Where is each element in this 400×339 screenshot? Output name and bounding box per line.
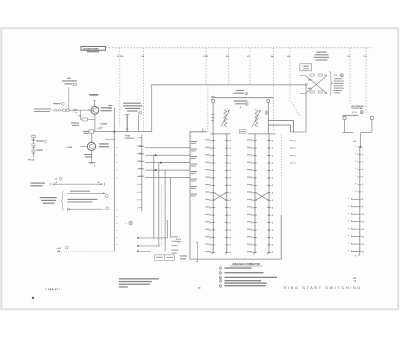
connector P1 pin name labels [191, 141, 197, 196]
svg-text:4: 4 [355, 254, 356, 257]
svg-text:a: a [348, 228, 349, 230]
svg-text:4: 4 [272, 229, 273, 232]
wires from bus to P1 [138, 146, 190, 178]
stub wires right of P2 [290, 140, 296, 164]
svg-text:a: a [116, 155, 117, 157]
Q2 labels [99, 143, 109, 147]
Q2 emitter down with cap [84, 151, 95, 168]
footnote block [119, 278, 159, 287]
tiny dot mark [32, 297, 34, 299]
chassis part label box [81, 46, 105, 50]
wire dashed dropper 4 CR [203, 48, 208, 85]
svg-text:4: 4 [230, 229, 231, 232]
dimension arrow line [51, 181, 105, 186]
Q1 emitter wire down [94, 114, 96, 131]
svg-text:TP-4.2: TP-4.2 [28, 158, 35, 161]
svg-text:a: a [137, 153, 138, 155]
svg-text:4: 4 [230, 206, 231, 209]
svg-text:a: a [137, 184, 138, 186]
svg-text:4: 4 [272, 192, 273, 195]
svg-text:a: a [137, 200, 138, 202]
svg-text:a: a [116, 216, 117, 218]
svg-text:a: a [116, 177, 117, 179]
svg-text:4: 4 [272, 244, 273, 247]
connector J4 bottom hook [355, 254, 360, 258]
dashed feed line [57, 250, 115, 252]
svg-text:+4: +4 [55, 181, 57, 184]
P2-A pin id labels [247, 139, 252, 252]
svg-text:9: 9 [362, 207, 363, 209]
wire dashed dropper C2 [347, 48, 350, 105]
P2-B pin ticks [267, 139, 273, 254]
svg-text:4: 4 [230, 221, 231, 224]
svg-text:2 PART: 2 PART [302, 65, 309, 68]
svg-text:4: 4 [230, 169, 231, 172]
svg-text:1: 1 [362, 147, 363, 149]
svg-text:4 4: 4 4 [354, 280, 357, 283]
svg-text:7: 7 [362, 192, 363, 194]
wire dashed dropper T-8 [363, 48, 367, 115]
svg-text:13: 13 [362, 236, 364, 238]
telset label [31, 183, 46, 187]
right sub-circuit wires [342, 115, 373, 147]
bracket right [196, 242, 198, 262]
svg-text:a: a [137, 137, 138, 139]
svg-text:a: a [116, 237, 117, 239]
svg-text:4: 4 [230, 139, 231, 142]
svg-text:5: 5 [295, 148, 296, 150]
svg-text:a: a [355, 183, 356, 185]
stub wires bottom [137, 237, 167, 252]
transistor Q1 [88, 106, 99, 114]
svg-text:a: a [137, 176, 138, 178]
svg-text:a: a [355, 146, 356, 148]
wire dashed dropper 4T [247, 48, 250, 85]
svg-text:a: a [348, 205, 349, 207]
svg-text:4: 4 [94, 164, 95, 167]
resistor R2 box [79, 115, 95, 121]
svg-text:8: 8 [362, 199, 363, 201]
Q2 base wire with arrow label [65, 146, 88, 149]
text row 2 [67, 199, 97, 203]
svg-text:5: 5 [295, 163, 296, 165]
svg-text:4: 4 [272, 147, 273, 150]
connector J4 pin ticks [348, 146, 364, 254]
wire dashed dropper 4A [271, 48, 274, 132]
collector rail wire [91, 131, 152, 133]
svg-text:7-4BB 4P1: 7-4BB 4P1 [45, 288, 61, 291]
varistor string [53, 108, 91, 120]
svg-text:a: a [348, 213, 349, 215]
test point chain [32, 134, 36, 157]
switch lever dashed [287, 48, 300, 116]
Q1 collector stub [89, 94, 98, 106]
svg-text:4: 4 [355, 140, 356, 143]
svg-text:4: 4 [230, 214, 231, 217]
svg-text:⋯4 B: ⋯4 B [56, 247, 61, 250]
svg-text:3: 3 [362, 162, 363, 164]
svg-text:4: 4 [272, 184, 273, 187]
svg-text:4: 4 [272, 139, 273, 142]
sheet title [284, 286, 362, 290]
label R-102 [53, 102, 64, 105]
svg-text:C4: C4 [324, 92, 326, 95]
svg-text:a: a [116, 244, 117, 246]
shield wire A [125, 114, 130, 132]
svg-text:6: 6 [362, 184, 363, 186]
connector column P1-A [211, 134, 213, 254]
svg-text:4: 4 [272, 214, 273, 217]
wire pair to right block [268, 121, 293, 132]
svg-text:a: a [137, 145, 138, 147]
svg-text:a: a [116, 223, 117, 225]
svg-text:4: 4 [272, 251, 273, 254]
connector column P2-B [267, 134, 269, 254]
label 2.5 [100, 123, 107, 124]
wire dashed dropper 47 CM [117, 48, 123, 127]
thermistor note [125, 221, 133, 225]
note 2-part locator board [314, 52, 329, 61]
svg-text:CONTROL: CONTROL [125, 138, 136, 140]
connector J4 vertical [359, 147, 361, 254]
svg-text:4: 4 [362, 168, 363, 171]
tiny mark [198, 287, 200, 288]
bus verticals [154, 155, 171, 251]
svg-text:12: 12 [362, 229, 364, 231]
svg-text:a: a [355, 190, 356, 192]
svg-text:4: 4 [272, 154, 273, 157]
note 2.2 [55, 177, 62, 180]
svg-text:2: 2 [220, 273, 221, 275]
svg-text:a: a [137, 168, 138, 170]
svg-text:a: a [116, 162, 117, 164]
svg-text:a: a [348, 250, 349, 252]
svg-text:R4: R4 [75, 108, 77, 111]
trademark box [155, 255, 175, 260]
svg-text:15: 15 [362, 251, 364, 253]
svg-text:4: 4 [88, 109, 89, 112]
connector column P1-B [225, 134, 227, 254]
svg-text:a: a [355, 175, 356, 177]
svg-text:4: 4 [272, 206, 273, 209]
note with circle [56, 246, 68, 250]
svg-text:a: a [348, 198, 349, 200]
slanted annotation [96, 126, 103, 131]
label tone control [125, 136, 136, 141]
legend title [230, 263, 263, 266]
svg-text:5: 5 [295, 155, 296, 157]
page reference [45, 288, 61, 291]
wire stub from note [68, 87, 70, 110]
brace [329, 72, 332, 96]
svg-text:a: a [137, 207, 138, 209]
svg-text:a: a [137, 192, 138, 194]
dashed return wire [280, 135, 282, 214]
svg-text:4: 4 [230, 177, 231, 180]
svg-text:10: 10 [362, 214, 364, 216]
note ringer equivalency [123, 103, 142, 115]
legend notes [219, 267, 277, 288]
svg-text:4: 4 [230, 162, 231, 165]
arrow row 1 [67, 191, 108, 198]
P2-A pin ticks [251, 139, 257, 254]
svg-text:a: a [355, 153, 356, 155]
svg-text:a: a [348, 243, 349, 245]
svg-text:AVAILABLE CONNECTOR: AVAILABLE CONNECTOR [232, 263, 260, 266]
crossed wires with resistors [300, 74, 327, 95]
network block outline [152, 85, 306, 132]
switch contact S2 [267, 99, 270, 133]
bottom rail segments [211, 130, 276, 134]
Q1 labels [101, 107, 112, 111]
svg-text:4: 4 [272, 221, 273, 224]
switch common wire [211, 90, 274, 98]
svg-text:4(A): 4(A) [308, 87, 312, 90]
svg-text:a: a [116, 147, 117, 149]
label center [176, 238, 181, 244]
P1-A pin ticks [210, 139, 216, 254]
wire dashed dropper 1 B [141, 48, 145, 132]
svg-text:1: 1 [220, 268, 221, 270]
part locator box [300, 64, 312, 71]
svg-text:4: 4 [230, 199, 231, 202]
tick bus wire [137, 134, 141, 211]
svg-text:6: 6 [220, 286, 221, 288]
crossover wires P1 [213, 192, 227, 200]
svg-text:R-4: R-4 [79, 115, 82, 118]
svg-text:11: 11 [362, 222, 364, 224]
shield wire B [139, 115, 141, 132]
coil L2 with arrow [252, 110, 261, 128]
svg-text:a: a [116, 210, 117, 212]
typical setup note [40, 197, 57, 204]
aux ringer computer label [351, 105, 364, 114]
svg-text:2.2: 2.2 [55, 179, 58, 181]
labels right of box [180, 255, 187, 259]
junction dots on wires [155, 154, 162, 171]
transistor Q2 [87, 133, 95, 150]
dashed chassis boundary wire [106, 47, 373, 49]
brace left [61, 191, 64, 210]
svg-text:4: 4 [240, 106, 241, 109]
svg-text:a: a [116, 170, 117, 172]
inner dashed divider [208, 85, 215, 132]
note cluster top left [62, 78, 77, 86]
connector strip P1 outline [190, 128, 281, 259]
svg-text:14: 14 [362, 243, 364, 246]
svg-text:2: 2 [362, 154, 363, 156]
svg-text:a: a [355, 168, 356, 170]
svg-text:4: 4 [230, 244, 231, 247]
chassis sub-label [87, 51, 99, 53]
wire dashed dropper 4R [226, 48, 229, 85]
svg-text:a: a [348, 235, 349, 237]
block inner label [234, 100, 248, 109]
svg-text:4(B): 4(B) [308, 79, 312, 82]
junction dot [360, 146, 362, 148]
svg-text:LOCB: LOCB [303, 69, 309, 71]
svg-text:a: a [348, 220, 349, 222]
switch contact S1 [212, 99, 215, 133]
svg-text:5: 5 [362, 177, 363, 179]
svg-text:+4: +4 [97, 181, 99, 184]
svg-text:COMPUTER: COMPUTER [351, 108, 363, 110]
svg-text:4: 4 [230, 251, 231, 254]
svg-text:5: 5 [295, 140, 296, 142]
svg-text:CHASSIS PART: CHASSIS PART [83, 48, 99, 51]
svg-text:4: 4 [230, 184, 231, 187]
svg-text:4: 4 [230, 147, 231, 150]
svg-text:4: 4 [230, 192, 231, 195]
svg-text:4: 4 [230, 236, 231, 239]
stub labels column [172, 236, 180, 253]
connector column P2-A [253, 134, 255, 254]
svg-text:a: a [355, 161, 356, 163]
P1-B pin ticks [225, 139, 231, 254]
note beside brace [334, 74, 344, 94]
svg-text:4: 4 [272, 169, 273, 172]
svg-text:4: 4 [272, 162, 273, 165]
telephone network label [34, 108, 51, 112]
drawing number [353, 277, 356, 282]
svg-text:→ 4 RD: → 4 RD [65, 146, 73, 149]
svg-text:4: 4 [139, 112, 140, 115]
diode CR1 above Q2 [83, 130, 94, 134]
coil L1 with arrow [221, 110, 230, 128]
svg-text:4: 4 [230, 154, 231, 157]
test point labels [28, 140, 47, 161]
main vertical wire [105, 105, 117, 251]
svg-text:4: 4 [272, 177, 273, 180]
svg-text:47 CM: 47 CM [117, 55, 123, 58]
svg-text:4: 4 [272, 236, 273, 239]
P1-A pin id labels [205, 139, 210, 252]
svg-text:1 B: 1 B [141, 56, 145, 58]
svg-text:a: a [116, 230, 117, 232]
svg-text:4 CR: 4 CR [203, 55, 208, 58]
arrow row 3 [67, 207, 108, 211]
crossover wires P2 [255, 192, 269, 200]
svg-text:C4: C4 [324, 74, 326, 77]
svg-text:RING START SWITCHING: RING START SWITCHING [284, 286, 362, 290]
svg-text:3: 3 [220, 277, 221, 279]
rotated pin note [265, 111, 268, 115]
svg-text:4: 4 [272, 199, 273, 202]
label 1-4.8 [71, 122, 79, 126]
svg-text:a: a [137, 161, 138, 163]
Q1 base wire [0, 0, 1, 1]
